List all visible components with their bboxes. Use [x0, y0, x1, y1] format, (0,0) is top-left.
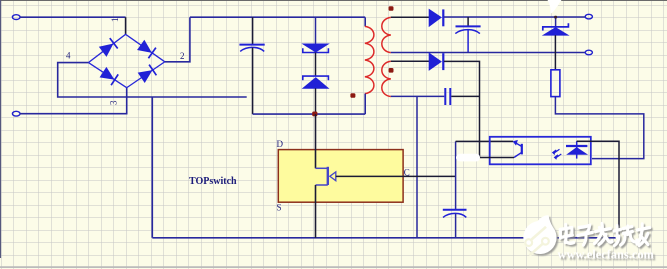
wire R1 to LED anode loop [555, 97, 643, 159]
junction dot drain node [312, 112, 317, 117]
bridge rectifier BR1 diamond [88, 34, 164, 87]
terminal J4 (output return) [585, 50, 592, 55]
optocoupler U2 box [490, 137, 591, 165]
watermark chinese glyph 发 [594, 224, 612, 245]
wire bridge pin2 riser to DC+ rail [165, 17, 190, 62]
capacitor C2 (output cap) [467, 17, 469, 26]
transformer T1 secondary lower (bias winding) [382, 61, 391, 96]
zener D2 (feedback reference) [555, 17, 557, 27]
wire between clamp diodes [315, 53, 317, 77]
U1 source line to ground rail [315, 185, 317, 238]
watermark chinese glyph 子 [578, 226, 593, 246]
zener D6 (clamp, points up) [303, 76, 329, 80]
U1 internal MOSFET drain line [315, 114, 317, 168]
svg-text:D: D [277, 139, 284, 149]
U2 LED glow arrows [553, 149, 560, 154]
bridge diode top-left [100, 44, 113, 56]
U2 LED [576, 141, 578, 158]
svg-text:2: 2 [180, 51, 185, 61]
wire bridge pin1 vertical [125, 17, 127, 34]
wire C node vertical [455, 141, 457, 209]
U1 MOSFET channel and gate [316, 167, 328, 169]
wire D1 cathode to output terminal [444, 16, 585, 18]
svg-text:3: 3 [109, 100, 119, 105]
watermark chinese glyph 烧 [614, 226, 637, 246]
zener D5 (clamp, points down) [315, 17, 317, 44]
capacitor C5 (control pin cap) [443, 209, 467, 211]
wire gate/control out to C node [336, 175, 456, 177]
wire drain low rail [253, 113, 366, 115]
wire secondary mid return rail [391, 52, 585, 54]
secondary upper polarity dot [389, 6, 394, 11]
terminal J3 (+ output) [585, 14, 592, 19]
watermark blob over emitter wire [456, 154, 480, 162]
frame edges [0, 0, 667, 2]
wire secondary top to D1 [391, 16, 429, 18]
svg-text:1: 1 [110, 18, 120, 23]
watermark swoosh top [548, 0, 562, 14]
wire bridge pin4 to DC- rail [58, 63, 247, 97]
terminal J1 (AC in top-left) [12, 15, 20, 20]
terminal J2 (AC in bottom-left) [12, 111, 20, 116]
watermark logo link icon [532, 227, 547, 240]
wire opto emitter out left [480, 157, 515, 159]
watermark chinese glyph 电 [560, 225, 574, 244]
capacitor C1 (bulk input cap) [252, 17, 254, 44]
U2 phototransistor [521, 144, 523, 155]
capacitor C4 (bias cap, horizontal) [444, 88, 446, 105]
bridge diode bottom-right [139, 71, 152, 82]
wire J2 to bridge pin3 [20, 88, 127, 114]
wire bias winding bottom to C4 [391, 95, 445, 97]
wire bias return drop [416, 96, 418, 237]
wire bias winding to D3 [391, 60, 429, 62]
wire DC+ top rail [190, 16, 365, 18]
wire bottom ground rail [152, 237, 618, 239]
watermark chinese glyph 友 [637, 224, 650, 246]
transformer T1 secondary upper [382, 17, 391, 52]
transformer T1 primary [364, 17, 366, 26]
bridge diode bottom-left [100, 68, 113, 79]
resistor R1 (feedback series R, box style) [551, 70, 560, 97]
wire LED cathode to ground riser [577, 141, 619, 238]
wire C node to opto collector [456, 140, 513, 142]
svg-text:4: 4 [66, 51, 71, 61]
svg-text:TOPswitch: TOPswitch [189, 176, 237, 187]
primary polarity dot [350, 93, 355, 98]
wire left return rail down [151, 97, 153, 238]
wire D3 cathode down to opto emitter [444, 61, 480, 157]
wire J1 to bridge pin1 riser [20, 16, 125, 18]
TOPswitch U1 body [278, 150, 403, 203]
watermark logo circle [523, 215, 556, 254]
bridge diode top-right [138, 41, 151, 52]
svg-text:S: S [277, 203, 282, 213]
svg-text:www.elecfans.com: www.elecfans.com [558, 248, 655, 262]
diode D3 (bias rectifier) [429, 53, 441, 70]
diode D1 (output rectifier) [429, 9, 441, 26]
secondary lower polarity dot [389, 68, 394, 73]
